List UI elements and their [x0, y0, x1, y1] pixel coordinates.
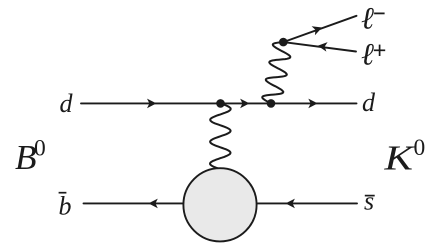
svg-text:ℓ: ℓ [361, 37, 374, 72]
svg-text:0: 0 [414, 135, 426, 161]
svg-text:d: d [60, 89, 74, 118]
svg-text:0: 0 [34, 135, 46, 161]
svg-text:s: s [364, 187, 374, 216]
svg-text:ℓ: ℓ [361, 1, 374, 36]
svg-text:d: d [362, 88, 376, 117]
svg-text:K: K [383, 138, 415, 177]
svg-text:b: b [59, 192, 72, 221]
